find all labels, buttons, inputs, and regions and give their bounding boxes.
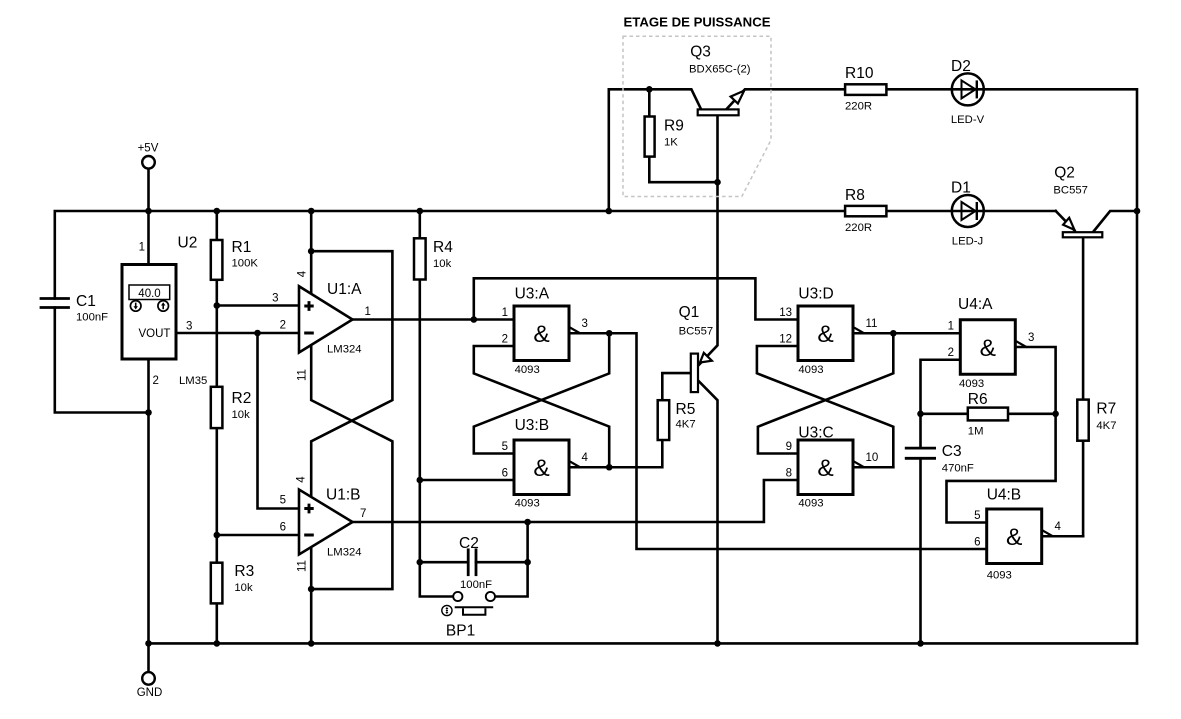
svg-text:6: 6: [280, 522, 286, 534]
svg-text:100nF: 100nF: [460, 579, 492, 591]
svg-text:R1: R1: [232, 239, 252, 256]
svg-text:3: 3: [186, 321, 192, 333]
svg-text:U3:D: U3:D: [798, 286, 833, 303]
svg-text:Q1: Q1: [679, 304, 700, 321]
svg-text:U1:A: U1:A: [327, 281, 362, 298]
svg-text:1M: 1M: [968, 426, 984, 438]
svg-text:R10: R10: [845, 65, 874, 82]
svg-text:BDX65C-(2): BDX65C-(2): [689, 64, 751, 76]
svg-text:40.0: 40.0: [138, 288, 160, 300]
svg-text:LED-V: LED-V: [951, 114, 985, 126]
svg-text:VOUT: VOUT: [139, 328, 171, 340]
svg-text:&: &: [817, 321, 833, 348]
svg-text:3: 3: [272, 293, 278, 305]
svg-text:U3:B: U3:B: [515, 417, 549, 434]
svg-text:D1: D1: [951, 180, 971, 197]
svg-text:100K: 100K: [232, 258, 259, 270]
svg-text:&: &: [817, 455, 833, 482]
svg-text:LM324: LM324: [327, 344, 362, 356]
svg-text:12: 12: [779, 334, 792, 346]
svg-text:C1: C1: [76, 293, 96, 310]
svg-text:R8: R8: [845, 187, 865, 204]
svg-text:R4: R4: [433, 239, 453, 256]
svg-text:R9: R9: [664, 117, 684, 134]
svg-text:13: 13: [779, 307, 792, 319]
svg-text:GND: GND: [137, 687, 163, 699]
svg-text:3: 3: [582, 318, 588, 330]
svg-text:9: 9: [786, 441, 792, 453]
svg-text:11: 11: [297, 560, 309, 572]
svg-text:6: 6: [974, 537, 980, 549]
svg-text:&: &: [1006, 524, 1022, 551]
svg-text:R3: R3: [234, 563, 254, 580]
svg-text:10k: 10k: [433, 258, 452, 270]
svg-text:C3: C3: [942, 443, 962, 460]
svg-text:8: 8: [786, 468, 792, 480]
svg-text:LM35: LM35: [179, 375, 207, 387]
svg-text:2: 2: [502, 334, 508, 346]
svg-text:LM324: LM324: [327, 547, 362, 559]
svg-text:LED-J: LED-J: [952, 236, 983, 248]
svg-text:1: 1: [502, 307, 508, 319]
svg-text:&: &: [980, 335, 996, 362]
svg-text:5: 5: [502, 441, 508, 453]
svg-text:U4:A: U4:A: [958, 296, 993, 313]
svg-text:U1:B: U1:B: [326, 487, 360, 504]
svg-text:11: 11: [297, 369, 309, 381]
svg-text:6: 6: [502, 468, 508, 480]
svg-text:100nF: 100nF: [76, 312, 108, 324]
svg-text:4: 4: [582, 452, 589, 464]
svg-text:+5V: +5V: [138, 143, 159, 155]
svg-text:10k: 10k: [232, 409, 251, 421]
svg-text:BC557: BC557: [1053, 184, 1088, 196]
svg-text:1K: 1K: [664, 136, 678, 148]
svg-text:U2: U2: [178, 235, 198, 252]
svg-text:R6: R6: [968, 391, 988, 408]
svg-text:4093: 4093: [798, 364, 823, 376]
svg-text:4093: 4093: [798, 498, 823, 510]
svg-text:R2: R2: [232, 390, 252, 407]
svg-text:220R: 220R: [845, 222, 872, 234]
svg-text:4: 4: [296, 476, 308, 483]
svg-text:U4:B: U4:B: [987, 487, 1021, 504]
svg-text:R7: R7: [1096, 401, 1116, 418]
svg-text:4: 4: [1055, 521, 1062, 533]
svg-text:Q2: Q2: [1054, 165, 1075, 182]
svg-text:470nF: 470nF: [942, 463, 974, 475]
svg-text:BP1: BP1: [446, 623, 475, 640]
svg-text:BC557: BC557: [679, 326, 714, 338]
svg-text:4K7: 4K7: [676, 418, 696, 430]
svg-text:2: 2: [280, 320, 286, 332]
svg-text:U3:A: U3:A: [515, 286, 550, 303]
svg-text:R5: R5: [676, 401, 696, 418]
svg-text:10: 10: [866, 452, 879, 464]
svg-text:1: 1: [139, 242, 145, 254]
svg-text:Q3: Q3: [690, 43, 711, 60]
svg-text:4: 4: [297, 270, 309, 277]
svg-text:ETAGE DE PUISSANCE: ETAGE DE PUISSANCE: [623, 15, 770, 30]
svg-text:1: 1: [948, 321, 954, 333]
svg-text:4093: 4093: [515, 498, 540, 510]
svg-text:4093: 4093: [515, 364, 540, 376]
svg-text:10k: 10k: [234, 582, 253, 594]
svg-text:5: 5: [280, 495, 286, 507]
svg-text:U3:C: U3:C: [798, 425, 833, 442]
svg-text:7: 7: [360, 508, 366, 520]
svg-text:&: &: [533, 455, 549, 482]
svg-text:2: 2: [153, 375, 159, 387]
svg-text:1: 1: [365, 306, 371, 318]
svg-text:3: 3: [1028, 332, 1034, 344]
svg-text:220R: 220R: [845, 101, 872, 113]
svg-text:11: 11: [866, 318, 878, 330]
svg-text:4093: 4093: [987, 570, 1012, 582]
svg-text:4K7: 4K7: [1096, 420, 1116, 432]
svg-text:&: &: [533, 321, 549, 348]
svg-text:2: 2: [948, 347, 954, 359]
svg-text:C2: C2: [459, 535, 479, 552]
svg-text:5: 5: [974, 510, 980, 522]
svg-text:4093: 4093: [959, 378, 984, 390]
svg-text:D2: D2: [951, 58, 971, 75]
